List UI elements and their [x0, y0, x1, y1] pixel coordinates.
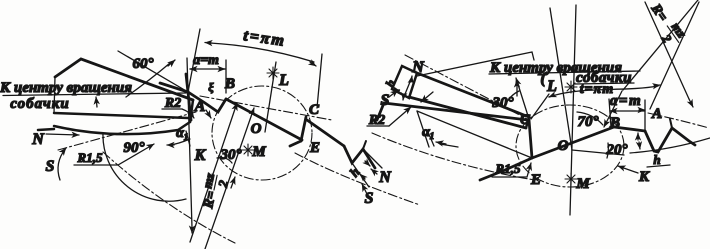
dimension a=m right — [610, 110, 645, 112]
star L right and label — [565, 81, 577, 93]
svg-text:a=m: a=m — [193, 53, 219, 68]
svg-text:M: M — [575, 176, 590, 192]
20 degree arc — [607, 143, 608, 158]
h tooth dimension extensions — [363, 149, 382, 168]
pawl guide line with hook — [417, 52, 534, 76]
vertical axis line with bottom arrow — [187, 58, 192, 228]
line through L right — [550, 8, 572, 150]
star M — [242, 144, 254, 156]
extension A slant long — [650, 2, 699, 109]
svg-text:M: M — [251, 144, 266, 160]
svg-text:K: K — [638, 169, 650, 185]
svg-text:h: h — [653, 152, 660, 167]
pitch circle right (dash-dot) — [516, 105, 624, 187]
B face — [614, 127, 645, 131]
extension B up — [609, 99, 611, 127]
pawl body right — [417, 73, 529, 117]
tooth face C-E — [301, 117, 306, 141]
root arc lower right (dash-dot) — [295, 153, 420, 205]
leader to pawl pivot (text line) — [3, 93, 186, 96]
star L and label — [267, 67, 279, 79]
svg-text:90°: 90° — [124, 140, 145, 156]
B leader arrow — [604, 91, 622, 127]
slanted extension line above a=m — [188, 29, 200, 92]
svg-text:70°: 70° — [578, 114, 599, 130]
30 degree right — [516, 78, 529, 119]
tooth profile right: back of C — [384, 103, 528, 120]
svg-text:O: O — [251, 121, 262, 137]
70 degree arc — [577, 112, 603, 125]
svg-text:S: S — [46, 158, 55, 175]
tooth tip line into face — [160, 83, 188, 92]
svg-text:собачки: собачки — [576, 70, 632, 86]
k centru right text — [489, 71, 640, 74]
small face far left — [377, 103, 384, 120]
line through L — [265, 62, 276, 132]
svg-text:A: A — [194, 98, 206, 115]
pawl bottom stub — [38, 129, 54, 130]
extension line at B — [225, 60, 227, 93]
pawl tail rhombus right — [392, 66, 417, 98]
svg-text:30°: 30° — [220, 147, 242, 163]
pawl mid edge — [54, 113, 188, 118]
pawl axis (dash-dot) — [58, 112, 196, 150]
h tooth notch — [344, 146, 375, 168]
pawl claw cap — [190, 100, 193, 122]
svg-text:C: C — [309, 102, 320, 118]
extension line at C — [317, 54, 322, 108]
pawl contact line — [417, 111, 532, 158]
face C-E right — [529, 120, 532, 158]
svg-text:R=: R= — [647, 1, 670, 25]
pawl belly — [54, 122, 190, 134]
E to lower left — [480, 158, 532, 180]
pawl left edge — [54, 77, 55, 113]
svg-text:R=: R= — [201, 190, 219, 211]
svg-text:a=m: a=m — [610, 93, 642, 109]
svg-text:B: B — [224, 76, 235, 92]
arrow into pawl node — [421, 92, 433, 102]
svg-text:ξ: ξ — [208, 80, 214, 94]
extension right of a=m — [644, 100, 646, 130]
E to B chord — [532, 127, 614, 158]
star M right — [565, 173, 577, 185]
svg-text:30°: 30° — [492, 95, 514, 111]
svg-text:L: L — [278, 72, 289, 89]
dash-dot through A — [648, 113, 709, 128]
tip tick on h-tooth — [363, 141, 366, 149]
dimension t=pi*m — [210, 43, 314, 62]
svg-text:1: 1 — [392, 86, 402, 93]
svg-text:1: 1 — [430, 131, 435, 141]
svg-text:N: N — [31, 131, 45, 148]
60 degree side line — [118, 51, 188, 92]
extension C up right — [531, 94, 549, 119]
svg-text:K: K — [194, 147, 207, 164]
svg-text:N: N — [411, 59, 425, 76]
svg-text:O: O — [558, 138, 569, 154]
svg-text:L: L — [546, 78, 557, 95]
pivot axis right (dash-dot) — [405, 55, 529, 120]
R=mz/2 right leader — [645, 2, 689, 99]
90 degree arc — [103, 133, 186, 201]
60 degree arc with arrow — [126, 63, 170, 97]
tooth notch A to B — [188, 92, 226, 112]
svg-text:E: E — [530, 172, 541, 188]
30 degree lines with arrows — [190, 103, 237, 242]
trajectory arc lower left (dash-dot) — [103, 152, 235, 243]
svg-text:N: N — [378, 169, 392, 186]
pawl upper edge — [55, 59, 193, 100]
h1 dimension — [403, 77, 412, 99]
bottom arc right (dash-dot) — [372, 133, 535, 180]
svg-text:R1,5: R1,5 — [77, 150, 103, 165]
svg-text:R1,5: R1,5 — [495, 161, 521, 176]
tooth back C into h-tooth — [307, 120, 344, 146]
centerline through O (dash-dot) — [200, 96, 332, 120]
root arc right — [630, 138, 710, 153]
tooth working face — [186, 74, 191, 120]
svg-text:E: E — [309, 140, 320, 156]
svg-text:2: 2 — [658, 31, 675, 46]
line B to E — [226, 99, 302, 140]
dimension a=m — [190, 68, 225, 70]
svg-text:К центру вращения: К центру вращения — [0, 80, 132, 96]
pitch circle (dash-dot) — [212, 86, 312, 180]
root stub at E — [290, 141, 301, 146]
svg-text:20°: 20° — [606, 142, 628, 158]
svg-text:собачки: собачки — [10, 96, 69, 112]
vertical axis right — [570, 5, 576, 215]
t=pi*m right — [549, 86, 658, 97]
R = mz/2 leader — [231, 177, 235, 188]
svg-text:C: C — [520, 112, 531, 128]
h tooth right diagram — [645, 128, 695, 152]
